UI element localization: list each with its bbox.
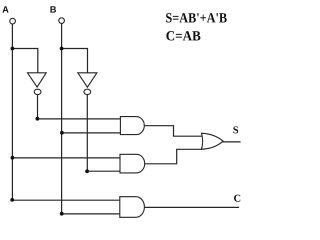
wire B to AND gate 1 bottom input — [62, 132, 121, 134]
wire A to AND gate 3 top input — [12, 199, 120, 201]
AND gate 3 (AB) — [120, 197, 145, 218]
junction dot A to AND3 — [10, 198, 14, 202]
wire B branch to inverter U2 — [62, 49, 88, 73]
junction dot B' corner — [85, 169, 89, 173]
wire AND3 output C — [144, 206, 238, 208]
wire B to AND gate 3 bottom input — [62, 213, 120, 215]
label S output — [233, 126, 238, 133]
inverter U1 triangle — [28, 73, 47, 87]
input terminal A — [10, 18, 16, 24]
wire inverter U1 output — [37, 95, 39, 119]
inverter U1 bubble — [34, 89, 41, 94]
junction dot B branch — [60, 47, 64, 51]
junction dot B to AND1 — [60, 131, 64, 135]
inverter U2 bubble — [84, 89, 91, 94]
label C output — [234, 195, 240, 202]
formula C=AB — [166, 31, 200, 40]
wire A vertical — [11, 24, 13, 200]
wire AND1 output to OR input — [144, 126, 202, 137]
junction dot A' corner — [36, 117, 40, 121]
node label A — [2, 6, 8, 12]
node label B — [50, 6, 56, 12]
OR gate (S) — [202, 133, 224, 149]
wire AND2 output to OR input — [145, 149, 202, 164]
AND gate 1 (A'B) — [120, 117, 144, 135]
wire B' to AND gate 2 bottom input — [87, 170, 120, 172]
wire A to AND gate 2 top input — [12, 157, 120, 159]
wire inverter U2 output — [86, 95, 88, 172]
junction dot A to AND2 — [11, 156, 15, 160]
AND gate 2 (AB') — [120, 154, 145, 173]
junction dot A branch — [11, 47, 15, 51]
wire B vertical — [61, 23, 63, 213]
inverter U2 triangle — [78, 73, 97, 87]
wire OR output S — [223, 141, 240, 143]
junction dot B to AND3 — [60, 212, 64, 216]
formula S=AB'+A'B — [166, 13, 227, 22]
wire A' to AND gate top input — [37, 118, 120, 120]
input terminal B — [59, 18, 65, 24]
wire A branch to inverter U1 — [12, 49, 37, 73]
